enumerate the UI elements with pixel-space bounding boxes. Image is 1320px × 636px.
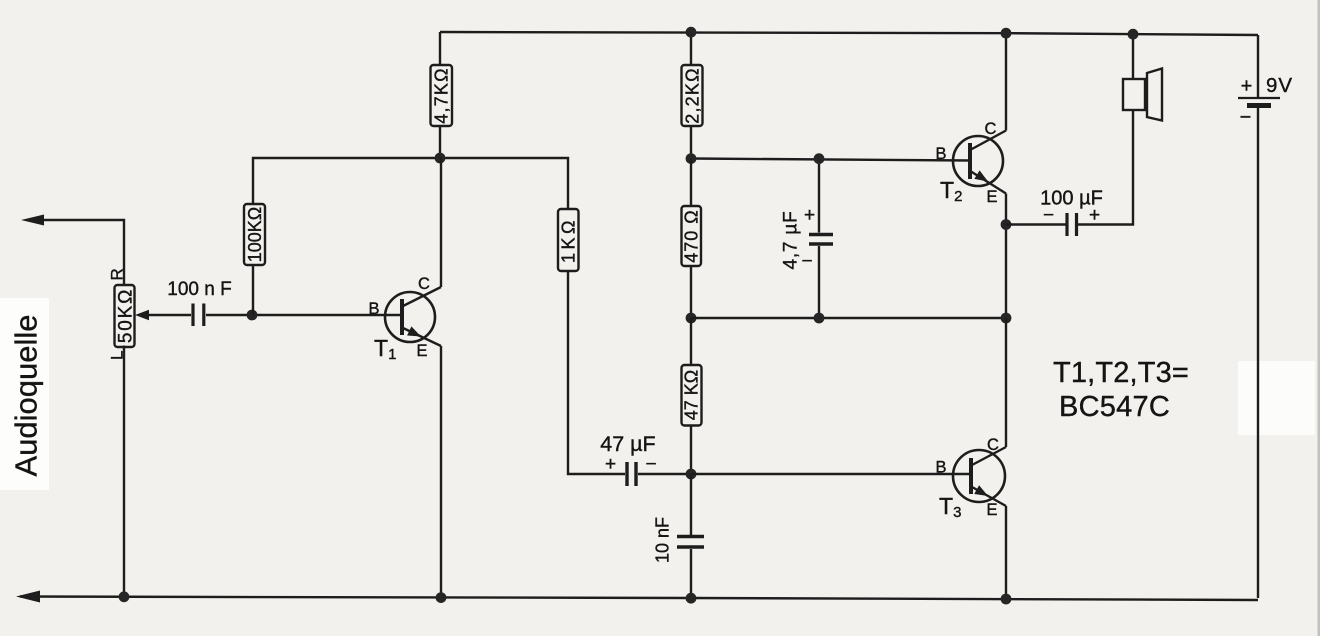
wire R3 bottom to C2: [568, 271, 625, 474]
wire node B horizontal to T2 base: [691, 159, 971, 161]
junction node C: [686, 313, 697, 324]
svg-text:E: E: [986, 501, 997, 519]
bottom rail left arrowhead: [16, 591, 40, 603]
wire C3 bottom to ground rail: [690, 549, 692, 598]
junction node base T1: [247, 310, 258, 321]
speaker LS1 cone: [1147, 69, 1162, 121]
wire R1 top feed: [439, 32, 441, 65]
transistor T3 emitter stroke: [972, 487, 1006, 506]
svg-text:E: E: [416, 342, 427, 360]
svg-text:−: −: [1043, 205, 1054, 226]
resistor R4 2.2K body: [682, 65, 703, 126]
svg-text:+: +: [605, 454, 616, 475]
capacitor C3 10nF plates: [677, 537, 704, 548]
transistor T1 circle: [385, 292, 435, 342]
wire node A horizontal (100K top to 1K top): [253, 158, 568, 209]
wire R1 bottom to node A: [439, 126, 441, 158]
transistor T3 collector stroke: [972, 447, 1006, 465]
resistor R5 470 body: [682, 206, 702, 266]
wire bottom rail: [20, 597, 1258, 601]
input R arm arrowhead: [21, 215, 44, 226]
transistor T2 base bar: [968, 143, 972, 179]
junction ground T3 emitter: [1001, 594, 1012, 605]
wire top rail: [440, 32, 1258, 35]
resistor R3 1K body: [558, 209, 579, 271]
svg-text:E: E: [986, 188, 997, 206]
svg-text:B: B: [368, 300, 379, 318]
transistor T2 collector stroke: [971, 131, 1006, 150]
wire battery negative drop: [1257, 107, 1259, 598]
svg-text:9V: 9V: [1266, 74, 1293, 97]
svg-text:T2: T2: [940, 177, 962, 205]
svg-text:4,7 µF: 4,7 µF: [781, 210, 802, 269]
wire input R arm with arrow: [36, 220, 124, 285]
svg-text:2,2KΩ: 2,2KΩ: [683, 67, 703, 123]
junction speaker top rail: [1128, 29, 1139, 40]
transistor T2 emitter stroke: [971, 172, 1006, 194]
svg-text:Audioquelle: Audioquelle: [9, 314, 44, 476]
svg-text:R: R: [108, 268, 127, 280]
scan right edge strip: [1318, 0, 1320, 636]
svg-text:B: B: [935, 459, 946, 477]
svg-text:BC547C: BC547C: [1059, 391, 1170, 423]
wire speaker top to rail: [1132, 34, 1134, 79]
potentiometer P1 50K body: [115, 285, 135, 347]
wire R6 top: [690, 318, 692, 365]
transistor T1 emitter stroke: [403, 328, 441, 346]
svg-text:−: −: [1240, 107, 1252, 129]
resistor R2 100K body: [244, 204, 265, 265]
wire T3 collector to node C: [1005, 318, 1007, 447]
junction C4 top node: [814, 153, 825, 164]
svg-text:+: +: [1241, 76, 1253, 98]
wiper arrowhead: [135, 310, 149, 321]
svg-text:4,7KΩ: 4,7KΩ: [432, 67, 452, 123]
speaker LS1 magnet box: [1123, 79, 1145, 110]
wire T2 emitter node to C5: [1006, 223, 1066, 225]
svg-text:−: −: [645, 454, 656, 475]
wire T1 emitter to ground rail: [440, 346, 442, 598]
transistor T3 emitter arrowhead: [974, 485, 990, 500]
battery B1 negative plate: [1247, 103, 1271, 108]
junction C4 bottom node: [814, 313, 825, 324]
wire T2 collector to top rail: [1005, 33, 1007, 130]
junction node B: [686, 153, 697, 164]
capacitor C1 100nF plates: [193, 304, 204, 327]
svg-text:+: +: [1089, 205, 1100, 226]
svg-text:C: C: [985, 120, 997, 138]
junction ground C3: [686, 593, 697, 604]
svg-text:T3: T3: [939, 493, 961, 521]
svg-text:50KΩ: 50KΩ: [116, 288, 137, 343]
svg-text:100KΩ: 100KΩ: [245, 207, 265, 263]
wire C4 bottom: [818, 246, 820, 318]
svg-text:B: B: [935, 145, 946, 163]
wire C3 top: [690, 474, 692, 535]
transistor T1 collector stroke: [403, 287, 441, 306]
transistor T1 emitter arrowhead: [407, 326, 423, 341]
resistor R6 47K body: [682, 365, 702, 426]
wire R5 bottom to node C: [690, 266, 692, 318]
svg-text:T1,T2,T3=: T1,T2,T3=: [1053, 357, 1189, 389]
junction node B top rail R4: [686, 27, 697, 38]
wire C1 to T1 base: [206, 314, 403, 316]
wire R4 top feed: [690, 32, 692, 65]
wire R5 top: [690, 159, 692, 207]
wire node D to T3 base: [691, 473, 972, 475]
capacitor C4 4.7uF plates: [809, 235, 833, 245]
junction ground T1 emitter: [436, 592, 447, 603]
wire T3 emitter to ground rail: [1005, 506, 1007, 599]
resistor R1 4.7K body: [431, 65, 453, 126]
wire C5 to speaker: [1078, 110, 1133, 225]
svg-text:T1: T1: [374, 335, 396, 363]
wire R2 bottom to base node: [252, 265, 254, 315]
svg-text:C: C: [987, 436, 999, 454]
svg-text:+: +: [804, 205, 815, 226]
transistor T2 circle: [953, 136, 1003, 186]
wire node C horizontal: [691, 317, 1006, 319]
transistor T1 base bar: [400, 299, 404, 335]
wire R6 bottom to node D: [690, 426, 692, 475]
capacitor C5 100uF plates: [1067, 213, 1077, 236]
svg-text:10 nF: 10 nF: [653, 517, 673, 563]
wire T2 emitter down to node C: [1005, 194, 1007, 319]
junction node D: [686, 469, 697, 480]
svg-text:C: C: [418, 275, 430, 293]
junction T2 collector top rail: [1001, 28, 1012, 39]
transistor T3 circle: [953, 450, 1005, 502]
svg-text:470 Ω: 470 Ω: [682, 209, 702, 263]
battery B1 positive plate: [1238, 97, 1280, 99]
wire battery positive drop: [1257, 35, 1259, 97]
transistor T2 emitter arrowhead: [974, 170, 990, 185]
svg-text:47 KΩ: 47 KΩ: [682, 370, 702, 420]
svg-text:100 n F: 100 n F: [167, 279, 231, 300]
capacitor C2 47uF plates: [627, 462, 636, 486]
junction T2 emitter node: [1001, 219, 1012, 230]
wire pot bottom to ground rail: [123, 346, 125, 598]
svg-text:−: −: [801, 251, 812, 272]
transistor T3 base bar: [969, 458, 973, 494]
junction node C right: [1001, 313, 1012, 324]
wire C4 top: [818, 159, 820, 233]
wire C2 to T3 base node: [638, 473, 691, 475]
svg-text:1KΩ: 1KΩ: [559, 217, 579, 263]
wire T1 collector to node A: [440, 158, 442, 287]
junction node A: [435, 153, 446, 164]
wire R4 bottom to node B: [690, 126, 692, 159]
wiper wire to C1: [148, 314, 191, 316]
scan white patch right: [1238, 361, 1315, 435]
svg-text:47 µF: 47 µF: [600, 432, 655, 456]
junction ground pot: [119, 591, 130, 602]
scan white patch left: [0, 298, 49, 490]
